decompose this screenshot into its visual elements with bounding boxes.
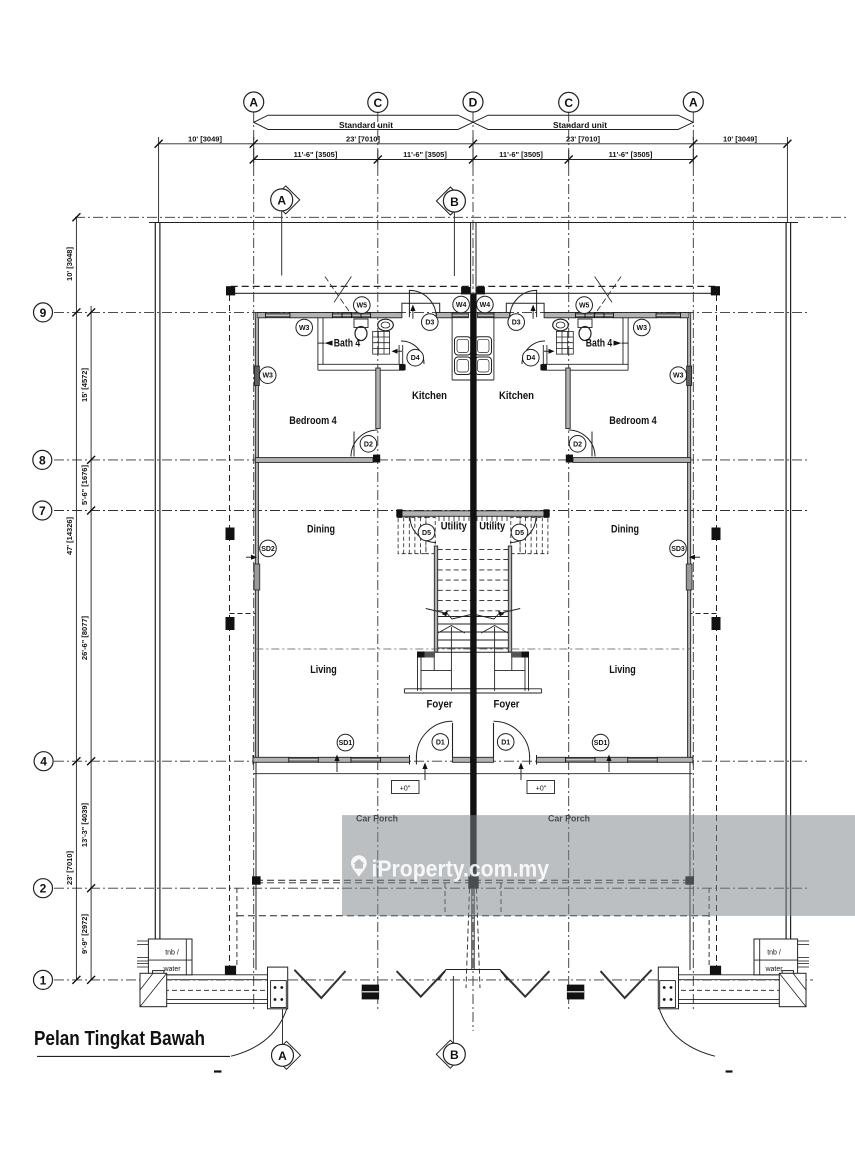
left exterior wall — [255, 318, 258, 757]
svg-text:23' [7010]: 23' [7010] — [65, 851, 74, 885]
svg-text:23' [7010]: 23' [7010] — [346, 135, 380, 144]
grid C — [377, 112, 379, 1012]
svg-text:Dining: Dining — [307, 524, 335, 536]
svg-text:11'-6" [3505]: 11'-6" [3505] — [499, 150, 543, 159]
svg-text:13'-3" [4039]: 13'-3" [4039] — [80, 802, 89, 847]
party wall splay dashed — [466, 889, 470, 988]
svg-text:Utility: Utility — [479, 521, 506, 533]
porch roof dashed — [256, 879, 473, 881]
svg-text:D2: D2 — [573, 441, 582, 448]
svg-text:Standard unit: Standard unit — [553, 121, 607, 130]
porch column — [252, 876, 261, 884]
svg-text:C: C — [373, 96, 382, 110]
svg-text:5'-6" [1676]: 5'-6" [1676] — [80, 465, 89, 505]
grid A — [253, 112, 255, 1012]
row line top boundary y=217 — [75, 216, 847, 218]
windows on front wall — [266, 313, 469, 318]
svg-text:D1: D1 — [436, 739, 445, 746]
svg-text:Standard unit: Standard unit — [339, 121, 393, 130]
svg-text:B: B — [450, 1048, 459, 1062]
D2 door — [351, 430, 378, 457]
svg-text:2: 2 — [40, 882, 47, 896]
svg-text:D2: D2 — [364, 441, 373, 448]
shower grid — [373, 331, 390, 354]
kitchen counter — [451, 318, 453, 380]
stair bottom / foyer — [417, 651, 473, 653]
V gates — [294, 970, 345, 998]
svg-text:W4: W4 — [456, 302, 467, 309]
svg-text:Bedroom 4: Bedroom 4 — [289, 415, 337, 427]
fence band — [140, 975, 288, 1004]
grid A right — [692, 112, 694, 1012]
left pillar cap + hatched block — [153, 971, 164, 980]
svg-text:Living: Living — [310, 664, 337, 676]
D3 entrance niche — [402, 290, 440, 317]
stair break zigzag — [426, 609, 473, 620]
row 4 — [54, 760, 809, 762]
row 7 — [54, 510, 809, 512]
fence column — [225, 966, 236, 975]
svg-text:iProperty.com.my: iProperty.com.my — [372, 856, 550, 882]
svg-text:11'-6" [3505]: 11'-6" [3505] — [294, 150, 338, 159]
svg-text:+0": +0" — [400, 786, 411, 793]
gate swing arc — [231, 1008, 287, 1056]
svg-text:26'-6" [8077]: 26'-6" [8077] — [80, 615, 89, 660]
svg-text:D5: D5 — [515, 530, 524, 537]
svg-text:Bedroom 4: Bedroom 4 — [609, 415, 657, 427]
front wall segments (row 9) — [257, 313, 452, 318]
svg-text:B: B — [450, 195, 459, 209]
svg-text:10' [3049]: 10' [3049] — [188, 135, 222, 144]
tick slashes dim line 1 — [155, 140, 792, 164]
svg-text:11'-6" [3505]: 11'-6" [3505] — [609, 150, 653, 159]
svg-text:SD1: SD1 — [339, 740, 353, 747]
svg-text:Foyer: Foyer — [494, 699, 521, 711]
dim line 2 — [254, 159, 694, 161]
svg-text:1: 1 — [40, 973, 47, 987]
D5 door — [410, 517, 436, 543]
svg-text:Bath 4: Bath 4 — [586, 338, 613, 350]
svg-text:W3: W3 — [673, 373, 684, 380]
SD2 jamb dashes — [230, 613, 256, 615]
porch bottom dashed — [237, 915, 473, 917]
svg-text:A: A — [278, 1049, 287, 1063]
black block — [362, 985, 379, 1000]
svg-text:Bath 4: Bath 4 — [334, 338, 361, 350]
hexagon standard unit left — [254, 115, 694, 129]
svg-text:W3: W3 — [637, 325, 648, 332]
columns on overhang line — [226, 528, 235, 541]
roof overhang dashed outline — [231, 285, 473, 287]
svg-text:D1: D1 — [501, 739, 510, 746]
porch left vertical — [255, 762, 257, 970]
svg-text:Dining: Dining — [611, 524, 639, 536]
grid D centerline — [472, 112, 474, 1031]
svg-text:D3: D3 — [425, 320, 434, 327]
stair left wall — [434, 546, 437, 652]
+0 box — [392, 781, 420, 794]
tnb/water spur lines — [137, 941, 148, 967]
D4 door — [401, 341, 424, 364]
svg-text:Utility: Utility — [441, 521, 468, 533]
svg-text:D4: D4 — [526, 355, 535, 362]
svg-text:tnb /: tnb / — [165, 950, 179, 957]
svg-text:water: water — [764, 966, 783, 973]
svg-text:A: A — [689, 96, 698, 110]
grid C right — [568, 112, 570, 1012]
svg-text:11'-6" [3505]: 11'-6" [3505] — [403, 150, 447, 159]
svg-text:A: A — [249, 96, 258, 110]
row 9 — [54, 311, 809, 313]
bath 4 — [318, 318, 405, 370]
svg-text:Kitchen: Kitchen — [412, 390, 447, 402]
party wall top column — [461, 287, 470, 294]
svg-text:SD1: SD1 — [594, 740, 608, 747]
svg-text:W3: W3 — [299, 325, 310, 332]
porch apron — [254, 773, 473, 775]
svg-text:D3: D3 — [512, 320, 521, 327]
svg-text:W3: W3 — [262, 373, 273, 380]
svg-text:+0": +0" — [536, 786, 547, 793]
svg-text:C: C — [564, 96, 573, 110]
svg-text:23' [7010]: 23' [7010] — [566, 135, 600, 144]
row 1 — [54, 979, 813, 981]
utility top wall (row7) — [397, 511, 473, 517]
svg-text:tnb /: tnb / — [767, 950, 781, 957]
svg-text:10' [3048]: 10' [3048] — [65, 247, 74, 281]
stair treads dashed (upper flight) — [438, 549, 473, 610]
svg-text:4: 4 — [40, 755, 47, 769]
arrows at sliding doors — [336, 758, 338, 772]
svg-text:8: 8 — [39, 453, 46, 467]
extension lines — [158, 137, 160, 222]
row8 bedroom wall — [255, 458, 373, 463]
svg-text:water: water — [162, 966, 181, 973]
top grid bubbles — [244, 92, 704, 112]
front wall row 4 — [253, 757, 471, 762]
W3 window left wall — [254, 366, 259, 386]
svg-text:A: A — [277, 194, 286, 208]
left row bubbles — [33, 303, 53, 990]
row 2 — [54, 887, 809, 889]
center gate cap — [446, 969, 473, 971]
svg-text:W5: W5 — [357, 303, 368, 310]
svg-text:W4: W4 — [480, 302, 491, 309]
dim line 1 — [159, 143, 788, 145]
svg-text:D5: D5 — [422, 530, 431, 537]
svg-text:Foyer: Foyer — [427, 699, 454, 711]
svg-text:9: 9 — [40, 306, 47, 320]
svg-text:15' [4572]: 15' [4572] — [80, 368, 89, 402]
svg-text:Living: Living — [609, 664, 636, 676]
svg-text:W5: W5 — [579, 303, 590, 310]
beam line below roof — [231, 292, 473, 294]
gate post box — [268, 967, 288, 1009]
svg-text:7: 7 — [39, 504, 46, 518]
utility dashed closet — [398, 517, 435, 553]
svg-text:D4: D4 — [411, 355, 420, 362]
bath label leader arrows — [325, 341, 333, 346]
tnb box — [148, 939, 192, 975]
svg-text:Pelan Tingkat Bawah: Pelan Tingkat Bawah — [34, 1028, 205, 1050]
D1 door — [452, 723, 454, 757]
row 8 — [54, 459, 809, 461]
svg-text:D: D — [469, 96, 478, 110]
corner column — [226, 286, 235, 295]
svg-text:Kitchen: Kitchen — [499, 390, 534, 402]
SD2 sliding panel — [254, 564, 260, 590]
svg-text:SD3: SD3 — [671, 546, 685, 553]
stair treads solid (lower flight) — [438, 617, 471, 649]
landing grid line — [255, 648, 690, 650]
svg-text:47' [14326]: 47' [14326] — [65, 516, 74, 555]
svg-text:SD2: SD2 — [261, 546, 275, 553]
svg-text:9'-9" [2972]: 9'-9" [2972] — [80, 914, 89, 954]
bath fixtures — [354, 319, 368, 328]
diagonal marks over bath — [325, 277, 353, 317]
utility wall teeth — [439, 516, 469, 521]
bedroom/kitchen divider wall — [376, 368, 380, 429]
svg-text:10' [3049]: 10' [3049] — [723, 135, 757, 144]
